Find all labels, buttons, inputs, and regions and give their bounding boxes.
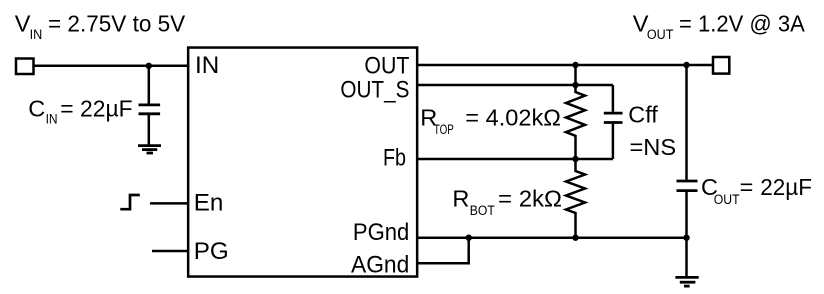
svg-text:=: =: [740, 174, 754, 200]
svg-text:V: V: [15, 10, 31, 36]
svg-text:IN: IN: [30, 27, 43, 42]
svg-text:PGnd: PGnd: [353, 219, 409, 246]
svg-text:=NS: =NS: [630, 134, 677, 160]
svg-text:C: C: [28, 95, 45, 121]
svg-text:= 4.02kΩ: = 4.02kΩ: [465, 104, 561, 130]
svg-text:IN: IN: [46, 112, 58, 127]
svg-text:= 22µF: = 22µF: [60, 95, 132, 121]
svg-text:= 1.2V @ 3A: = 1.2V @ 3A: [679, 11, 805, 37]
svg-text:OUT: OUT: [364, 53, 409, 80]
svg-text:OUT_S: OUT_S: [340, 77, 409, 104]
svg-text:TOP: TOP: [434, 122, 454, 137]
svg-text:Cff: Cff: [628, 101, 658, 127]
svg-text:22µF: 22µF: [760, 174, 812, 200]
svg-text:OUT: OUT: [647, 27, 674, 42]
svg-text:En: En: [194, 190, 224, 217]
svg-text:R: R: [452, 185, 469, 211]
svg-text:= 2kΩ: = 2kΩ: [498, 185, 562, 211]
svg-text:BOT: BOT: [470, 203, 495, 218]
svg-text:= 2.75V to 5V: = 2.75V to 5V: [48, 10, 186, 36]
svg-text:OUT: OUT: [714, 192, 740, 207]
svg-text:AGnd: AGnd: [351, 251, 409, 278]
svg-text:PG: PG: [194, 238, 229, 265]
svg-text:Fb: Fb: [383, 144, 406, 171]
svg-text:IN: IN: [195, 52, 219, 79]
